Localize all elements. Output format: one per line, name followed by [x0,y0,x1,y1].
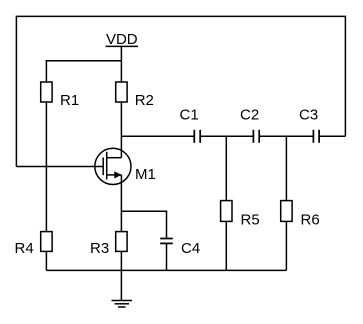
wire R3 bottom [120,251,122,270]
svg-text:C3: C3 [299,107,318,124]
ground [112,270,133,307]
resistor R2 [116,82,127,102]
resistor R4 [41,232,52,252]
resistor R3 [116,232,127,252]
transistor M1 [95,148,131,184]
svg-text:R3: R3 [90,240,109,257]
wire R1 to R4 [45,167,47,232]
capacitor C1 [194,130,200,143]
wire VDD underline [106,45,139,47]
wire R2 bottom / drain lead [120,102,122,158]
wire cap rail segment C2 to C3 [259,135,313,137]
wire R6 bottom to ground rail [285,221,287,270]
wire R4 bottom [45,251,47,270]
resistor R1 [45,102,47,167]
wire source node to C4 branch [121,211,166,238]
svg-text:R1: R1 [60,92,79,109]
wire VDD stem down to R2 [120,46,122,82]
wire feedback loop: left rail, top rail, right rail [16,16,345,166]
capacitor C3 [313,130,319,143]
wire cap rail segment C3 to right rail [319,135,345,137]
svg-text:C2: C2 [240,107,259,124]
svg-text:C4: C4 [181,240,200,257]
capacitor C4 [160,239,173,244]
wire source lead down [120,175,122,232]
wire C2-C3 node down to R6 [285,136,287,200]
svg-text:C1: C1 [180,107,199,124]
svg-text:M1: M1 [135,166,156,183]
svg-text:R2: R2 [135,92,154,109]
svg-text:R5: R5 [241,212,260,229]
wire cap rail segment drain to C1 [121,135,194,137]
wire C1-C2 node down to R5 [225,136,227,200]
capacitor C2 [253,130,259,143]
wire bottom rail [46,269,286,271]
wire C4 bottom to ground rail [166,243,168,270]
wire cap rail segment C1 to C2 [200,135,253,137]
wire R5 bottom to ground rail [225,221,227,270]
wire gate lead from left rail to M1 gate [16,166,103,168]
resistor R5 [221,201,232,222]
wire from R1 top to VDD rail [46,61,121,82]
svg-text:R6: R6 [301,212,320,229]
svg-text:VDD: VDD [106,31,138,48]
svg-text:R4: R4 [15,240,34,257]
resistor R6 [281,201,292,222]
